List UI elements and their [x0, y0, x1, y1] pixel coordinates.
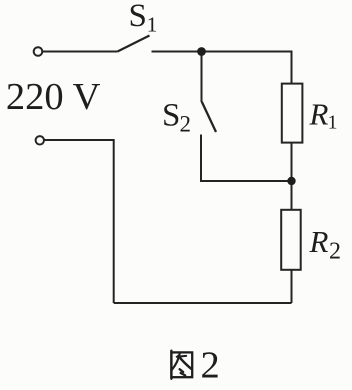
- terminal T2 (bottom, 220V source): [36, 136, 44, 144]
- svg-text:S: S: [129, 0, 147, 34]
- node B junction dot: [287, 177, 295, 185]
- switch S1 blade: [118, 36, 150, 52]
- resistor R1 body: [282, 84, 303, 143]
- wire T1 to S1: [43, 51, 118, 53]
- bottom wire: [114, 302, 292, 304]
- node A junction dot: [197, 47, 206, 56]
- left return wire up to terminal T2: [44, 140, 114, 303]
- svg-text:R: R: [309, 224, 329, 259]
- svg-text:220 V: 220 V: [6, 76, 101, 118]
- wire S1 to top-right corner and down to R1: [152, 52, 292, 85]
- svg-text:2: 2: [201, 345, 220, 387]
- wire R1 bottom to node B to R2 top: [291, 142, 293, 210]
- svg-text:R: R: [309, 97, 329, 132]
- switch S2 blade: [202, 102, 216, 132]
- resistor R2 body: [281, 210, 301, 270]
- svg-text:1: 1: [147, 13, 158, 37]
- terminal T1 (top, 220V source): [34, 47, 43, 56]
- wire S2 lower contact to node B: [201, 135, 292, 182]
- svg-text:S: S: [162, 98, 180, 134]
- wire node A down to S2: [201, 53, 203, 102]
- caption glyph 图 (drawn): [171, 351, 192, 379]
- svg-text:2: 2: [329, 238, 341, 264]
- wire R2 bottom to bottom-right corner: [291, 269, 293, 304]
- svg-text:1: 1: [328, 112, 338, 134]
- svg-text:2: 2: [180, 111, 192, 136]
